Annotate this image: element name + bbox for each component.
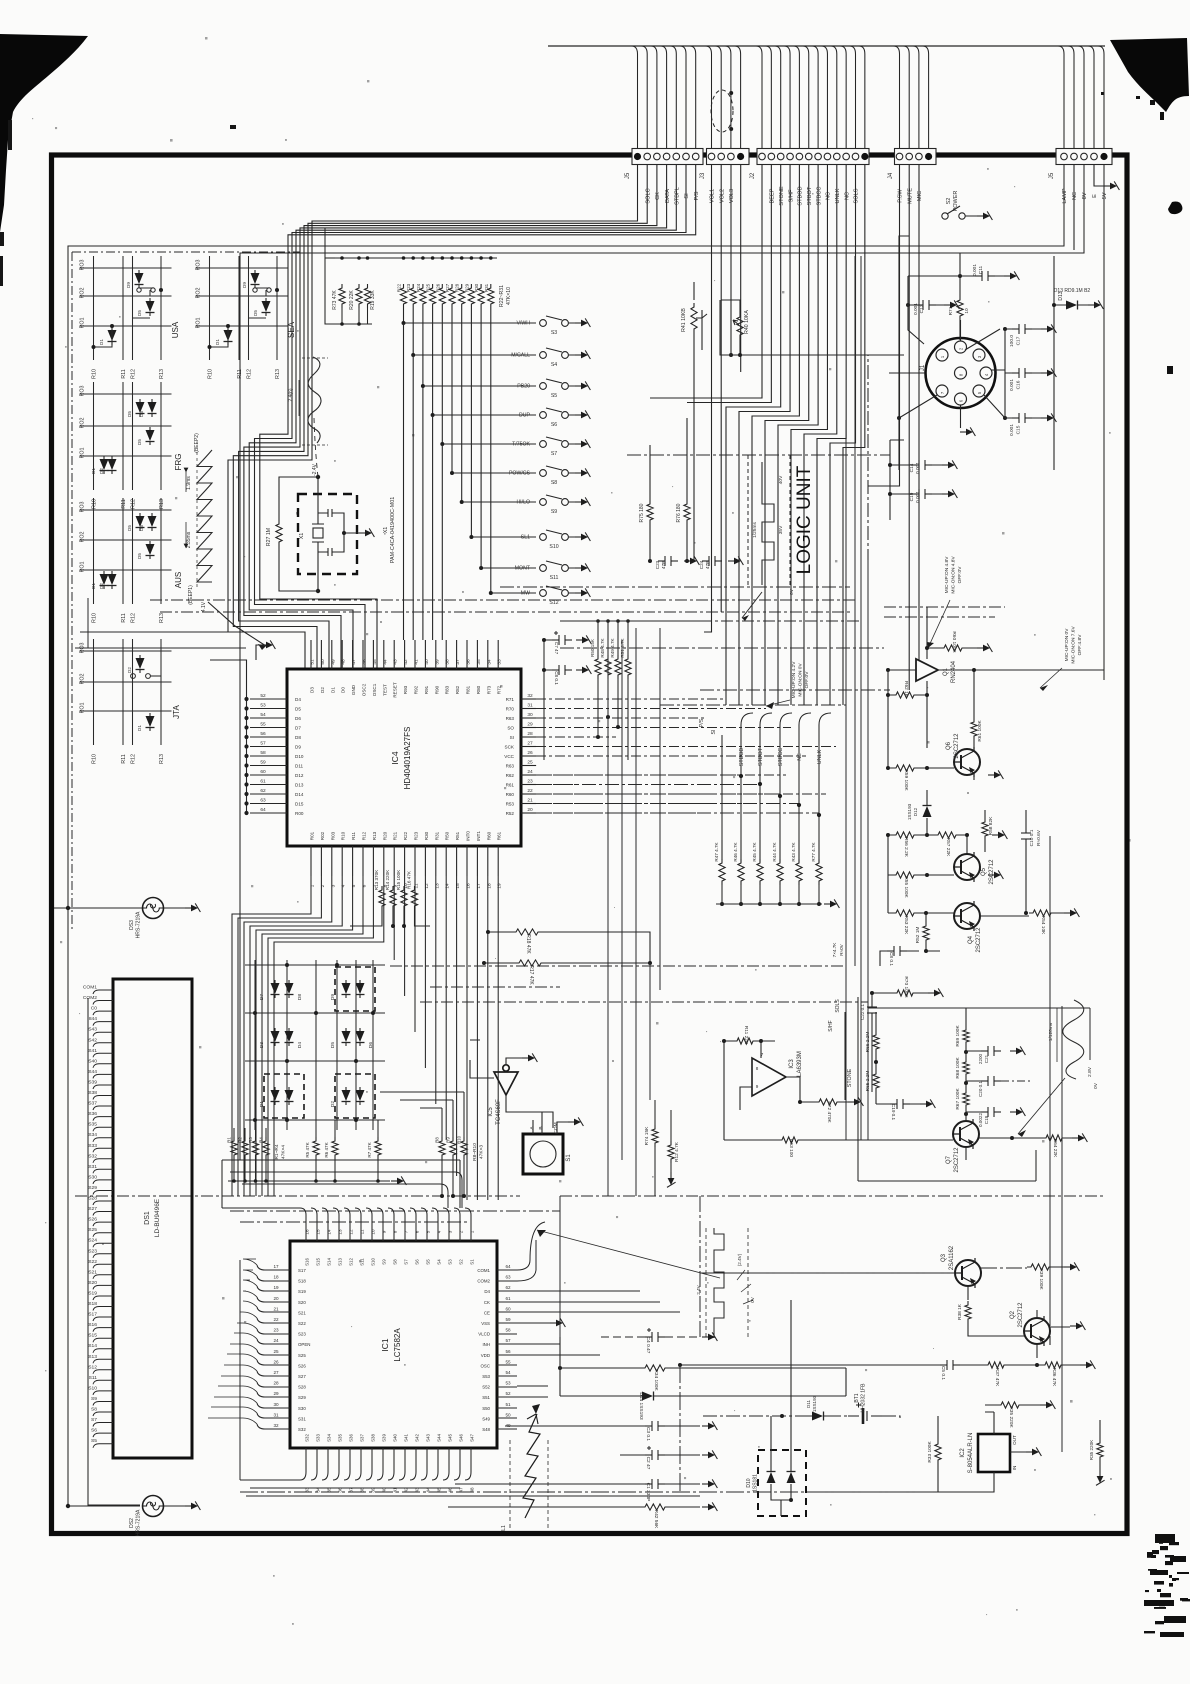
svg-text:5: 5 (351, 884, 357, 887)
svg-text:D1: D1 (137, 725, 142, 731)
harness wires J5 left routing (228, 165, 696, 670)
resistor R6 47K (332, 1137, 338, 1159)
svg-text:62: 62 (260, 788, 266, 794)
svg-text:HD404019A27FS: HD404019A27FS (403, 727, 412, 790)
svg-text:C5 0.1: C5 0.1 (940, 1366, 946, 1380)
svg-text:D5: D5 (127, 525, 132, 531)
svg-text:D3: D3 (259, 1042, 265, 1048)
resistor R24 (420, 284, 426, 308)
svg-text:0V: 0V (750, 1296, 755, 1303)
routing dash right top (884, 607, 1005, 617)
svg-text:S10: S10 (371, 1258, 376, 1266)
diode D2 (136, 655, 145, 673)
svg-text:7: 7 (404, 1230, 409, 1233)
svg-text:R35 220K: R35 220K (1008, 1406, 1014, 1428)
svg-text:RN2404: RN2404 (951, 660, 957, 683)
annotation arrow 3 (1040, 668, 1062, 688)
diode D5 (136, 399, 145, 417)
logic unit waveform (762, 462, 774, 585)
capacitor C2 47 (645, 1446, 665, 1460)
grid resistor wires (234, 1120, 378, 1181)
svg-text:S31: S31 (88, 1164, 97, 1170)
wire R47 feed (721, 735, 723, 860)
svg-text:R12 4.7K: R12 4.7K (674, 1141, 680, 1162)
wires R38 (968, 1323, 1024, 1336)
diode D14 1SS193 (639, 1392, 657, 1401)
svg-text:STBOD: STBOD (798, 186, 804, 205)
svg-text:R9: R9 (446, 1137, 451, 1143)
R13-R16 bus (350, 910, 430, 926)
bottom rail 1 (240, 1365, 938, 1492)
svg-text:S24: S24 (88, 1238, 97, 1244)
wires IC3 (724, 1041, 800, 1140)
wire 8V rail (240, 165, 1084, 1161)
svg-text:S34: S34 (88, 1132, 97, 1138)
capacitor C5 0.1 (940, 1360, 960, 1370)
svg-text:INT0: INT0 (466, 831, 471, 841)
routing bus D (75, 1195, 1104, 1197)
switch S9 (540, 495, 576, 505)
wire R46 (740, 840, 742, 904)
dashed box D9 (335, 967, 375, 1011)
svg-text:S21: S21 (298, 1310, 306, 1315)
svg-text:R74 15K: R74 15K (644, 1126, 650, 1145)
svg-text:R66 2.2M: R66 2.2M (865, 1032, 871, 1053)
capacitor C8 0.1 (552, 665, 572, 675)
svg-text:S41: S41 (88, 1048, 97, 1054)
svg-text:RO1: RO1 (80, 447, 86, 458)
svg-text:C22 0.1: C22 0.1 (860, 1004, 865, 1021)
svg-text:S52: S52 (482, 1385, 490, 1390)
svg-text:2: 2 (459, 1230, 464, 1233)
svg-text:0.001: 0.001 (1009, 424, 1015, 436)
resistor R55 100K (892, 872, 918, 878)
svg-text:D1: D1 (330, 687, 335, 693)
svg-text:D9: D9 (242, 282, 247, 288)
svg-text:B: B (538, 1126, 544, 1129)
svg-text:R43 4.7K: R43 4.7K (791, 841, 796, 861)
svg-text:R53: R53 (506, 802, 515, 807)
svg-text:R03: R03 (330, 831, 335, 840)
ground arrow C19 (942, 489, 957, 498)
wires R54 (980, 913, 1064, 916)
wire C14 (890, 464, 942, 466)
ground arrow C4 (702, 1332, 717, 1341)
resistor R27 (449, 284, 455, 308)
wire C3 (505, 1425, 700, 1427)
svg-text:COM1: COM1 (83, 985, 97, 991)
svg-text:R52 1M: R52 1M (915, 927, 921, 944)
wire C16 (1005, 372, 1041, 374)
svg-text:D5: D5 (330, 1042, 336, 1048)
svg-text:OFF:0V: OFF:0V (804, 671, 810, 689)
resistor R73 47K (339, 284, 345, 308)
svg-text:23: 23 (527, 779, 533, 785)
ground arrow S2 (977, 211, 992, 220)
IC4 HD404019A27FS body (287, 669, 521, 846)
svg-text:5V: 5V (1102, 192, 1108, 199)
svg-text:R02: R02 (320, 831, 325, 840)
svg-text:R24: R24 (416, 283, 421, 292)
svg-text:Q4: Q4 (968, 935, 974, 944)
diode D8 (285, 980, 294, 998)
svg-text:50: 50 (505, 1412, 511, 1417)
svg-text:D4: D4 (484, 1289, 490, 1294)
resistor R27 1M (276, 520, 282, 546)
svg-text:R17 47K: R17 47K (528, 965, 534, 985)
svg-text:E: E (1092, 194, 1098, 198)
wires DS2 (164, 1505, 185, 1507)
waveform sine 1/120ms (1063, 1000, 1084, 1079)
crystal X1 outer dashed box (298, 494, 357, 574)
svg-text:35V: 35V (778, 525, 784, 534)
svg-text:C19 0.1: C19 0.1 (891, 1104, 896, 1121)
svg-text:S33: S33 (88, 1143, 97, 1149)
svg-text:10: 10 (371, 1229, 376, 1235)
resistor R36 47K (1041, 1362, 1065, 1368)
svg-text:47K×10: 47K×10 (506, 287, 512, 305)
wire to switch S10 (471, 308, 536, 537)
svg-text:R67 100K: R67 100K (955, 1088, 961, 1110)
svg-text:R11: R11 (351, 832, 356, 841)
svg-text:(2.4V): (2.4V) (737, 1253, 742, 1266)
diode matrix AUS (80, 498, 172, 604)
junction VOL3 (729, 353, 733, 357)
svg-text:UNLK: UNLK (835, 188, 841, 203)
svg-text:45: 45 (372, 659, 378, 665)
svg-text:HRS-7219A: HRS-7219A (136, 1509, 142, 1536)
svg-text:R13: R13 (159, 369, 165, 379)
svg-text:R15 100K: R15 100K (396, 869, 401, 890)
svg-text:S43: S43 (426, 1434, 431, 1442)
svg-text:S11: S11 (550, 575, 559, 581)
wire R45 (759, 840, 761, 904)
IC1 right wires (517, 1222, 680, 1397)
resistor R56 2.2K (892, 832, 918, 838)
logic unit waveform dashes (748, 455, 790, 585)
connector J5 (left) (632, 149, 703, 165)
resistor R35b 220K (1097, 1439, 1103, 1461)
capacitor C20 0.1 (981, 1076, 1001, 1086)
svg-text:FRG: FRG (174, 454, 183, 471)
svg-text:17: 17 (476, 883, 482, 889)
svg-text:S27: S27 (88, 1206, 97, 1212)
svg-text:D5: D5 (137, 310, 142, 316)
ground arrow C24 (728, 556, 743, 565)
ground arrow S12 (575, 588, 590, 597)
svg-text:R52: R52 (506, 811, 515, 816)
svg-text:R8: R8 (435, 1137, 440, 1143)
svg-text:S33: S33 (316, 1434, 321, 1442)
ground arrow S11 (575, 563, 590, 572)
svg-text:OFF:0V: OFF:0V (957, 566, 963, 584)
switch S7 (540, 437, 576, 447)
svg-text:25: 25 (527, 760, 533, 766)
wire R27 (279, 477, 318, 591)
svg-text:R1~R4: R1~R4 (274, 1144, 280, 1159)
svg-text:R10: R10 (208, 369, 214, 379)
svg-text:S46: S46 (459, 1434, 464, 1442)
connector J3 (707, 149, 750, 165)
svg-text:RO2: RO2 (80, 287, 86, 298)
wire R34 (560, 1367, 846, 1369)
svg-text:15: 15 (316, 1229, 321, 1235)
switch S3 (540, 316, 576, 326)
svg-text:S38: S38 (371, 1434, 376, 1442)
J2 pins (759, 153, 869, 160)
svg-text:OUT: OUT (1012, 1435, 1017, 1445)
svg-text:RO1: RO1 (80, 317, 86, 328)
svg-text:51: 51 (505, 1402, 511, 1407)
wire R50 15K (597, 621, 599, 737)
svg-text:MIC: MIC (917, 191, 923, 201)
resistor R23 (410, 284, 416, 308)
svg-text:J5: J5 (625, 172, 631, 179)
scan artifact blob top-right (1110, 38, 1189, 112)
twisted-pair marker on VOL lines (711, 90, 733, 132)
wire R18 (488, 932, 650, 962)
resistor R29 (468, 284, 474, 308)
svg-text:54: 54 (505, 1370, 511, 1375)
capacitor C13 0.001 (916, 300, 936, 310)
svg-text:R71: R71 (506, 697, 515, 702)
svg-text:S7: S7 (91, 1417, 97, 1423)
svg-text:D9: D9 (295, 745, 301, 750)
grid bottom bus (228, 1180, 390, 1182)
svg-text:R64 22K: R64 22K (1052, 1139, 1058, 1158)
svg-text:30: 30 (273, 1402, 279, 1407)
svg-text:X1: X1 (299, 533, 305, 540)
svg-text:38: 38 (445, 659, 451, 665)
diode D9 (135, 270, 144, 288)
svg-text:S30: S30 (88, 1174, 97, 1180)
svg-text:27: 27 (273, 1370, 279, 1375)
svg-text:S3: S3 (551, 330, 557, 336)
svg-text:RO2: RO2 (196, 287, 202, 298)
svg-text:INH: INH (482, 1342, 490, 1347)
svg-text:R90: R90 (434, 685, 439, 694)
resistor R76 180 (684, 500, 690, 524)
capacitor C7 47 (552, 631, 572, 645)
svg-text:C20 0.1: C20 0.1 (978, 1081, 983, 1098)
svg-text:R70: R70 (506, 707, 515, 712)
svg-text:R72 470K: R72 470K (826, 1101, 832, 1123)
svg-text:D4: D4 (297, 1042, 303, 1048)
ground arrow S6 (575, 410, 590, 419)
svg-text:D1: D1 (91, 583, 96, 589)
zener D13 RD9.1M B2 (1063, 301, 1081, 310)
svg-text:R75 180: R75 180 (639, 503, 645, 522)
svg-text:HRS-7219A: HRS-7219A (136, 911, 142, 938)
svg-text:4.1V: 4.1V (201, 601, 207, 612)
svg-text:D4: D4 (295, 697, 301, 702)
J5 pins (634, 153, 699, 160)
crystal X1 element (312, 477, 324, 591)
svg-text:S4: S4 (437, 1259, 442, 1265)
svg-text:2SC2712: 2SC2712 (954, 1147, 960, 1173)
svg-text:21: 21 (273, 1306, 279, 1311)
svg-text:STBOT: STBOT (807, 186, 813, 205)
svg-text:R83: R83 (445, 685, 450, 694)
svg-text:C2 47: C2 47 (645, 1457, 651, 1470)
svg-text:R63 100: R63 100 (788, 1139, 794, 1157)
scan artifact right-edge mark (1168, 202, 1182, 215)
diode matrix USA (80, 256, 172, 360)
svg-text:44: 44 (382, 659, 388, 665)
svg-text:R33 100K: R33 100K (927, 1441, 933, 1463)
diode D4 (285, 1028, 294, 1046)
svg-text:STBCC: STBCC (816, 187, 822, 206)
svg-text:26: 26 (273, 1359, 279, 1364)
diode D1 (224, 327, 233, 345)
svg-text:D9: D9 (126, 282, 131, 288)
svg-text:R76 180: R76 180 (676, 503, 682, 522)
svg-text:OFF:4.8V: OFF:4.8V (1077, 634, 1083, 656)
svg-text:D9: D9 (330, 994, 336, 1000)
wire C11 link (908, 253, 1004, 276)
svg-text:R13: R13 (372, 831, 377, 840)
svg-text:R7 47K: R7 47K (367, 1141, 372, 1157)
svg-text:3: 3 (330, 884, 336, 887)
IC4 bottom pin wires (232, 876, 498, 1200)
wires R74 R12 (655, 1100, 671, 1196)
ground arrow S9 (575, 497, 590, 506)
routing horizontals right (536, 690, 890, 813)
matrix USA links (94, 288, 156, 347)
ground arrow R39 (1064, 1262, 1079, 1271)
wire VOL3 (731, 165, 904, 356)
resistor R67 100K (963, 1089, 969, 1109)
wire C19 (890, 493, 942, 495)
IC3 block frame (868, 1008, 1090, 1060)
IC1 VSS wire (517, 1322, 550, 1324)
svg-text:MIC-ON:ON 7.6V: MIC-ON:ON 7.6V (1071, 626, 1077, 664)
svg-text:21: 21 (527, 798, 533, 804)
svg-text:62: 62 (505, 1285, 511, 1290)
IC4 right pin wires (536, 699, 836, 813)
scan artifact streaks left edge (0, 120, 236, 286)
resistor R9 (450, 1137, 456, 1159)
svg-text:22: 22 (273, 1317, 279, 1322)
connector J5 (right) (1056, 149, 1112, 165)
svg-text:R11: R11 (121, 754, 127, 764)
svg-text:NC: NC (826, 192, 832, 200)
svg-text:R47 4.7K: R47 4.7K (714, 841, 719, 861)
svg-text:3: 3 (448, 1230, 453, 1233)
svg-text:R54 10K: R54 10K (1040, 916, 1046, 935)
svg-text:1: 1 (470, 1230, 475, 1233)
svg-text:S36: S36 (88, 1111, 97, 1117)
svg-text:Q1: Q1 (943, 667, 949, 676)
svg-text:R6 47K: R6 47K (324, 1141, 329, 1157)
diode D9 (342, 980, 351, 998)
resistor R49 4.7K (615, 655, 621, 679)
potentiometer R40 10KA (737, 313, 743, 339)
svg-text:S10: S10 (549, 544, 558, 550)
capacitor C19 0.1 (890, 1099, 910, 1109)
wire R48 4.7K (607, 621, 609, 717)
svg-text:C13: C13 (919, 304, 925, 313)
svg-text:R12: R12 (131, 754, 137, 764)
svg-text:63: 63 (260, 798, 266, 804)
resistor R57 22K (934, 832, 960, 838)
svg-text:S39: S39 (382, 1434, 387, 1442)
svg-text:S35: S35 (88, 1122, 97, 1128)
junction C17 (1003, 327, 1007, 331)
svg-text:49: 49 (330, 659, 336, 665)
svg-text:2.8V: 2.8V (1087, 1066, 1093, 1077)
resistor R70 100K (893, 990, 917, 996)
svg-text:IN: IN (1012, 1466, 1017, 1471)
svg-text:S31: S31 (298, 1416, 306, 1421)
svg-text:C17: C17 (1016, 336, 1022, 345)
svg-text:R62: R62 (506, 773, 515, 778)
svg-text:1: 1 (310, 884, 316, 887)
svg-text:DATA: DATA (665, 189, 671, 203)
resistor R14 220K (390, 886, 396, 910)
svg-text:1SS181: 1SS181 (753, 1474, 759, 1492)
svg-text:V/WH: V/WH (516, 321, 530, 327)
wire to switch S5 (423, 308, 536, 386)
svg-text:S19: S19 (298, 1289, 306, 1294)
ground arrow C21 (1010, 1046, 1025, 1055)
ground arrow C16 (1041, 368, 1056, 377)
wire C15 (1005, 417, 1041, 419)
capacitor C18 0.0022 (981, 1107, 1001, 1117)
svg-text:D5: D5 (137, 439, 142, 445)
svg-text:MIC-ON:ON 4.8V: MIC-ON:ON 4.8V (951, 556, 957, 594)
svg-text:S20: S20 (298, 1300, 306, 1305)
svg-text:55: 55 (260, 722, 266, 728)
waveform sine baseline (302, 358, 328, 445)
svg-text:S/HF: S/HF (788, 189, 794, 202)
svg-text:2.35ms: 2.35ms (186, 531, 192, 548)
svg-text:S6: S6 (551, 422, 557, 428)
svg-text:12: 12 (424, 883, 430, 889)
wires Q7 (966, 1120, 1072, 1160)
diode D5 (146, 298, 155, 316)
dashed box D2 (335, 1074, 375, 1118)
svg-text:IC3: IC3 (789, 1059, 795, 1069)
wires caps right (966, 1051, 981, 1112)
svg-text:R92: R92 (414, 685, 419, 694)
svg-text:D10: D10 (295, 754, 304, 759)
svg-text:R22: R22 (397, 283, 402, 292)
svg-text:R29: R29 (464, 283, 469, 292)
resistor R53 22K (892, 910, 918, 916)
svg-text:S32: S32 (298, 1427, 306, 1432)
resistor R28 (459, 284, 465, 308)
svg-text:R30: R30 (424, 831, 429, 840)
svg-text:STBOT: STBOT (758, 747, 764, 766)
resistor R25 (430, 284, 436, 308)
resistor R62 1K (892, 692, 918, 698)
svg-text:R60: R60 (486, 831, 491, 840)
transistor Q1 RN2404 (916, 659, 938, 681)
svg-text:S6: S6 (415, 1259, 420, 1265)
svg-text:12: 12 (349, 1229, 354, 1235)
resistor R35 220K (997, 1402, 1023, 1408)
svg-text:J3: J3 (700, 172, 706, 179)
svg-text:8: 8 (393, 1230, 398, 1233)
svg-text:R10: R10 (341, 831, 346, 840)
svg-text:RO3: RO3 (80, 501, 86, 512)
wire C1 (455, 1483, 700, 1485)
wire MIC to J1 (889, 372, 919, 374)
svg-text:S16: S16 (88, 1322, 97, 1328)
wire R44 (779, 840, 781, 904)
resistor R18 47K (512, 929, 542, 935)
